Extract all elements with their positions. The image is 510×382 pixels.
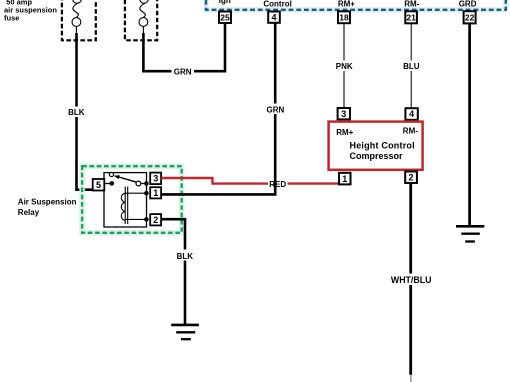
wire GRD pin 22 to ground <box>468 23 471 226</box>
relay enclosure (green dashed) <box>82 166 182 233</box>
pin box 21 <box>405 11 417 23</box>
coil junction dot to relay pin 1 <box>144 191 149 196</box>
label WHT/BLU <box>390 274 433 286</box>
svg-text:Ign: Ign <box>219 0 231 5</box>
relay switch SW1 <box>104 172 148 186</box>
relay body rectangle <box>104 173 147 227</box>
svg-text:22: 22 <box>465 13 475 23</box>
svg-text:Control: Control <box>263 0 291 8</box>
relay pin box 2 <box>150 214 161 225</box>
svg-text:BLK: BLK <box>68 108 85 117</box>
ground symbol relay <box>171 325 199 339</box>
svg-text:GRN: GRN <box>267 105 285 114</box>
wire BLK relay pin 2 to ground <box>161 219 185 325</box>
svg-text:RM-: RM- <box>403 127 418 136</box>
svg-text:1: 1 <box>153 188 158 198</box>
svg-text:5: 5 <box>96 180 101 190</box>
svg-text:BLU: BLU <box>403 62 420 71</box>
svg-text:RM+: RM+ <box>338 0 355 9</box>
wire RED relay pin 3 to compressor pin 1 <box>161 178 339 184</box>
svg-text:25: 25 <box>220 12 230 22</box>
compressor pin box 4 <box>405 108 417 120</box>
pin box 25 <box>219 12 231 24</box>
svg-text:3: 3 <box>341 109 346 119</box>
svg-text:21: 21 <box>406 13 416 23</box>
svg-text:Compressor: Compressor <box>350 151 404 161</box>
relay pin box 1 <box>150 187 161 198</box>
fuse box F2 (dashed) <box>125 0 157 40</box>
svg-text:4: 4 <box>271 13 276 23</box>
coil junction dot to relay pin 2 <box>144 217 149 222</box>
fuse box F1 (dashed) <box>62 0 96 40</box>
wire GRN fuse F2 to pin 25 <box>143 23 225 71</box>
svg-text:18: 18 <box>339 13 349 23</box>
relay pin box 5 <box>93 179 105 191</box>
compressor box (red) <box>329 122 423 170</box>
svg-text:Relay: Relay <box>18 208 40 217</box>
fuse F1 symbol <box>72 0 81 34</box>
svg-text:2: 2 <box>408 173 413 183</box>
svg-text:Height Control: Height Control <box>350 140 415 150</box>
compressor pin box 3 <box>338 108 350 119</box>
wire WHT/BLU compressor pin 2 down <box>409 183 412 375</box>
pin box 4 <box>268 12 280 23</box>
svg-text:3: 3 <box>153 174 158 184</box>
label GRN <box>265 104 286 115</box>
label BLU <box>402 61 421 72</box>
relay coil L1 <box>121 187 146 225</box>
svg-text:WHT/BLU: WHT/BLU <box>391 275 432 285</box>
label BLK <box>173 250 197 261</box>
wire PNK pin 18 to compressor pin 3 <box>343 23 345 108</box>
svg-text:BLK: BLK <box>177 252 194 261</box>
ECU module box U1 (blue dashed) <box>206 0 506 10</box>
svg-text:1: 1 <box>342 174 347 184</box>
svg-text:PNK: PNK <box>336 62 353 71</box>
svg-text:RED: RED <box>269 180 286 189</box>
wire BLU pin 21 to compressor pin 4 <box>410 24 412 109</box>
label RED background <box>268 180 288 189</box>
pin box 18 <box>338 11 350 23</box>
wire GRN Control pin 4 to relay pin 1 <box>161 23 275 194</box>
pin box 22 <box>464 11 476 23</box>
label PNK <box>334 61 356 72</box>
svg-text:fuse: fuse <box>4 13 19 22</box>
label BLK <box>66 107 87 118</box>
svg-text:4: 4 <box>409 109 414 119</box>
compressor pin box 1 <box>339 173 351 185</box>
svg-text:GRD: GRD <box>459 0 477 9</box>
svg-text:RM+: RM+ <box>336 128 353 137</box>
fuse F2 symbol <box>139 0 148 34</box>
ground symbol right <box>456 226 484 241</box>
relay pin box 3 <box>150 173 161 185</box>
label GRN <box>172 66 195 77</box>
wire BLK fuse F1 to relay pin 5 <box>77 33 94 190</box>
svg-text:Air Suspension: Air Suspension <box>18 198 77 207</box>
svg-text:GRN: GRN <box>174 67 192 76</box>
compressor pin box 2 <box>405 172 417 184</box>
svg-text:2: 2 <box>153 215 158 225</box>
svg-text:RM-: RM- <box>404 0 419 9</box>
